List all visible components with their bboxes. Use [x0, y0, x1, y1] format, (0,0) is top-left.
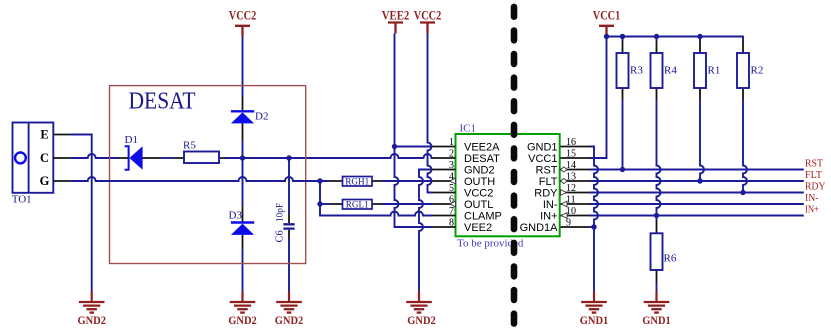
resistor R3 [617, 41, 644, 100]
svg-text:10pF: 10pF [276, 203, 286, 222]
svg-text:3: 3 [449, 160, 454, 171]
svg-text:IN+: IN+ [805, 204, 819, 216]
wire D3 to GND2 [242, 249, 244, 292]
svg-text:GND1: GND1 [642, 315, 671, 327]
junction rail tap [620, 34, 625, 39]
svg-text:RGH1: RGH1 [345, 177, 369, 187]
capacitor C6 [275, 203, 295, 243]
wire C6 to GND2 [288, 238, 290, 292]
svg-text:RST: RST [805, 158, 823, 170]
svg-text:DESAT: DESAT [129, 88, 196, 115]
wire rail tap [656, 37, 658, 42]
svg-text:GND1A: GND1A [520, 222, 559, 234]
wire DESAT net R5 to IC pin 2 [226, 154, 433, 158]
wire IN+ net [590, 215, 804, 217]
junction GND1A tie [591, 224, 596, 229]
wire VEE2 rail down to pin 8 [395, 34, 433, 228]
svg-text:RGL1: RGL1 [346, 200, 369, 210]
wire rail tap [699, 37, 701, 42]
svg-text:1: 1 [449, 137, 454, 148]
wire RDY net [590, 192, 804, 194]
resistor R5 [173, 140, 226, 164]
svg-text:E: E [40, 128, 48, 142]
ground GND2 [228, 292, 257, 328]
svg-text:G: G [40, 174, 50, 188]
svg-text:VEE2A: VEE2A [464, 142, 500, 154]
svg-text:12: 12 [566, 183, 576, 194]
IC1 right pin 16 GND1 [527, 137, 590, 154]
wire GND1 pin16 to ground [590, 147, 599, 292]
svg-text:D2: D2 [255, 111, 268, 123]
wire CLAMP row to IC pin 7 [330, 212, 433, 216]
svg-text:8: 8 [449, 218, 454, 229]
svg-text:FLT: FLT [539, 176, 558, 188]
junction at RGL1 branch [317, 201, 322, 206]
wire R2 to RDY [743, 100, 747, 193]
svg-text:GND2: GND2 [407, 315, 436, 327]
IC1 left pin 4 OUTH [433, 172, 496, 189]
junction R1/FLT [697, 178, 702, 183]
wire R4 to IN+ [657, 100, 661, 216]
svg-text:GND2: GND2 [275, 315, 304, 327]
junction rail at VCC1 [604, 34, 609, 39]
wire gate branch to RGL1 [320, 203, 330, 205]
ground GND2 [77, 292, 106, 328]
svg-text:IC1: IC1 [460, 123, 477, 135]
ground GND1 [580, 292, 609, 328]
wire VCC1 rail to pull-ups [607, 37, 744, 42]
resistor R2 [737, 41, 763, 100]
svg-text:VEE2: VEE2 [382, 9, 410, 23]
ground GND2 [275, 292, 304, 328]
resistor R6 [651, 220, 677, 283]
svg-text:D3: D3 [229, 210, 243, 222]
svg-text:VCC2: VCC2 [229, 9, 257, 23]
svg-text:2: 2 [449, 149, 454, 160]
connector TO1 [12, 123, 71, 206]
svg-text:R1: R1 [708, 65, 721, 77]
IC1 right pin 10 IN+ [540, 206, 589, 223]
svg-text:VCC1: VCC1 [528, 153, 557, 165]
svg-text:16: 16 [566, 137, 576, 148]
svg-text:VCC2: VCC2 [464, 188, 493, 200]
wire VEE2A tap to IC pin 1 [395, 146, 433, 148]
svg-text:C6: C6 [275, 230, 286, 242]
wire D1 to R5 [161, 157, 173, 159]
junction rail tap [654, 34, 659, 39]
svg-text:10: 10 [566, 206, 576, 217]
svg-text:VCC1: VCC1 [593, 9, 621, 23]
ground GND1 [642, 292, 671, 328]
svg-text:OUTL: OUTL [464, 199, 493, 211]
svg-text:R6: R6 [664, 253, 677, 265]
wire GND2 stem to IC pin 3 [419, 170, 433, 292]
wire RGH1 to IC pin 4 [382, 180, 433, 182]
svg-text:RDY: RDY [534, 188, 558, 200]
svg-text:RST: RST [536, 165, 558, 177]
junction gate node [317, 178, 322, 183]
IC1 left pin 1 VEE2A [433, 137, 501, 154]
DESAT region box [110, 86, 306, 264]
junction VEE2A tap [392, 144, 397, 149]
svg-text:13: 13 [566, 172, 576, 183]
power port VCC2 [229, 9, 257, 37]
resistor RGH1 [330, 177, 383, 187]
svg-text:7: 7 [449, 206, 454, 217]
junction at C6 column [286, 155, 291, 160]
wire R6 to GND1 [656, 283, 658, 292]
svg-text:IN-: IN- [543, 199, 558, 211]
wire rail tap [622, 37, 624, 42]
svg-text:IN+: IN+ [540, 211, 557, 223]
wire FLT net [590, 180, 804, 182]
IC1 right pin 9 GND1A [520, 218, 590, 235]
junction R4/IN+ [654, 213, 659, 218]
svg-text:IN-: IN- [805, 192, 819, 204]
wire C row to D1 [71, 154, 118, 158]
wire VCC2 down to IC pin 5 [428, 34, 433, 193]
dashed isolation barrier line [511, 7, 518, 336]
svg-text:VEE2: VEE2 [464, 222, 492, 234]
IC1 right pin 15 VCC1 [528, 149, 589, 166]
junction at D2/D3 column [240, 155, 245, 160]
diode D2 [231, 97, 269, 141]
power port VCC1 [593, 9, 621, 37]
svg-text:GND2: GND2 [77, 315, 106, 327]
svg-text:DESAT: DESAT [464, 153, 500, 165]
resistor R1 [694, 41, 720, 100]
svg-text:11: 11 [566, 195, 576, 206]
IC1 right pin 14 RST [536, 160, 590, 177]
ground GND2 [406, 292, 436, 328]
power port VCC2 [414, 9, 442, 34]
wire VCC1 pin15 up to rail [590, 37, 607, 159]
wire R1 to FLT [700, 100, 704, 181]
IC1 right pin 11 IN- [543, 195, 590, 212]
wire IN- net [590, 203, 804, 205]
junction R2/RDY [740, 190, 745, 195]
resistor R4 [651, 41, 678, 100]
svg-text:GND1: GND1 [527, 142, 558, 154]
svg-text:FLT: FLT [805, 169, 822, 181]
svg-text:D1: D1 [125, 134, 138, 146]
wire E to GND2 [71, 135, 92, 292]
wire D2 to DESAT node [242, 140, 244, 158]
svg-text:GND1: GND1 [580, 315, 609, 327]
wire G row to gate node [71, 177, 330, 181]
wire RST net [590, 169, 804, 171]
wire GND1A pin9 [590, 226, 595, 228]
svg-text:14: 14 [566, 160, 576, 171]
svg-text:R5: R5 [183, 140, 196, 152]
svg-text:GND2: GND2 [228, 315, 257, 327]
wire R3 to RST [622, 100, 624, 170]
svg-text:CLAMP: CLAMP [464, 211, 502, 223]
IC1 left pin 2 DESAT [433, 149, 501, 166]
svg-text:VCC2: VCC2 [414, 9, 442, 23]
IC1 right pin 13 FLT [539, 172, 590, 189]
power port VEE2 [382, 9, 410, 34]
IC1 left pin 5 VCC2 [433, 183, 494, 200]
wire RGL1 to IC pin 6 [382, 203, 433, 205]
svg-text:C: C [40, 151, 49, 165]
svg-text:TO1: TO1 [12, 194, 32, 206]
svg-text:9: 9 [566, 218, 571, 229]
wire DESAT node to C6 [288, 158, 290, 214]
junction R3/RST [620, 167, 625, 172]
svg-text:OUTH: OUTH [464, 176, 495, 188]
svg-text:R4: R4 [664, 65, 677, 77]
svg-text:GND2: GND2 [464, 165, 495, 177]
svg-text:15: 15 [566, 149, 576, 160]
IC1 left pin 6 OUTL [433, 195, 494, 212]
svg-text:R2: R2 [751, 65, 764, 77]
diode D1 [118, 134, 161, 170]
diode D3 [229, 206, 255, 249]
wire VCC2 to D2 [242, 37, 244, 97]
svg-text:5: 5 [449, 183, 454, 194]
wire gate node down to RGL1/CLAMP [320, 181, 330, 216]
wire DESAT node to D3 [242, 158, 244, 206]
svg-text:RDY: RDY [805, 181, 826, 193]
IC1 left pin 7 CLAMP [433, 206, 502, 223]
IC1 left pin 8 VEE2 [433, 218, 493, 235]
IC1 right pin 12 RDY [534, 183, 589, 200]
svg-text:R3: R3 [630, 65, 643, 77]
resistor R6 top wire [656, 216, 658, 221]
junction rail tap [697, 34, 702, 39]
resistor RGL1 [330, 200, 383, 210]
IC1 left pin 3 GND2 [433, 160, 495, 177]
op-amp / gate driver IC1 box [456, 134, 560, 236]
